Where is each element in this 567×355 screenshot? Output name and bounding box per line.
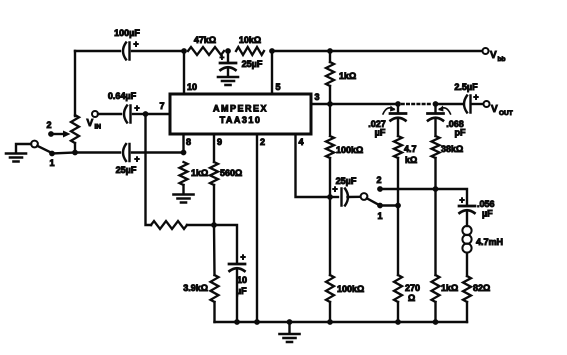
ground: below top 25uF cap xyxy=(218,77,238,85)
capacitor 0.64&#181;F input coupling xyxy=(108,91,140,123)
wire: top rail from 100uF to pin-10 node xyxy=(132,50,184,52)
resistor 10k&#937; in top rail xyxy=(236,35,264,55)
svg-text:4.7: 4.7 xyxy=(404,144,417,154)
wire: feedback node down to 3.9k xyxy=(213,225,216,275)
resistor 100k&#937; lower to ground rail xyxy=(326,275,364,302)
resistor 3.9k&#937; feedback to ground rail xyxy=(183,275,218,302)
svg-text:5: 5 xyxy=(275,82,280,92)
wire: pin-4 node down to lower 100k xyxy=(329,197,331,275)
svg-text:V: V xyxy=(87,118,94,129)
wire: position-2 across 38k line to .056 branch xyxy=(380,189,467,205)
svg-text:Ω: Ω xyxy=(408,293,415,303)
resistor 100k&#937; upper from output node to pin-4 node xyxy=(326,104,363,158)
terminal VIN input xyxy=(87,111,102,131)
svg-text:3.9kΩ: 3.9kΩ xyxy=(183,283,208,293)
svg-text:+: + xyxy=(220,53,225,62)
pin 2 lead from IC straight down to ground rail xyxy=(257,134,265,322)
switch S2 (tone) with arm to position 1 xyxy=(361,193,383,221)
svg-text:25µF: 25µF xyxy=(242,59,263,69)
wire: 25uF top cap to its ground xyxy=(227,69,229,76)
svg-text:10kΩ: 10kΩ xyxy=(239,35,261,45)
node: pin-7 input junction xyxy=(143,111,149,117)
ground: below pin-8 1k resistor xyxy=(174,195,194,203)
node: rail junction at lower 1k xyxy=(433,319,439,325)
svg-text:TAA310: TAA310 xyxy=(220,115,262,125)
svg-text:560Ω: 560Ω xyxy=(220,168,242,178)
pin 9 lead from IC down to 560 ohm xyxy=(214,134,222,162)
svg-text:3: 3 xyxy=(314,92,319,102)
node: switch position-1 junction on 4.7k line xyxy=(395,203,401,209)
svg-text:8: 8 xyxy=(186,137,191,147)
wire: 1k pin8 resistor to ground xyxy=(182,185,184,194)
potentiometer (volume control) with wiper arrow xyxy=(46,115,79,143)
pin 4 lead from IC down then right to 100k line xyxy=(296,134,331,197)
capacitor .056&#181;F series branch xyxy=(459,195,495,219)
ground: main ground below rail xyxy=(280,334,300,342)
node: switch position-2 junction on 38k line xyxy=(433,186,439,192)
svg-text:1: 1 xyxy=(49,158,54,168)
inductor 4.7mH xyxy=(462,226,503,253)
svg-text:2: 2 xyxy=(376,175,381,185)
svg-text:10: 10 xyxy=(187,82,197,92)
wire: 560 ohm down to feedback node xyxy=(213,185,215,225)
wire: 82 ohm to ground rail end xyxy=(466,302,468,322)
resistor 1k&#937; to ground rail (lower) xyxy=(432,275,459,302)
pin 8 lead from IC down to pin-8 node xyxy=(184,134,192,153)
ground: at input switch xyxy=(6,154,26,162)
capacitor 25&#181;F input coupling (bottom-left) xyxy=(116,144,140,175)
wire: lower 1k to ground rail xyxy=(434,302,436,322)
wire: 2.5uF to VOUT terminal xyxy=(472,103,483,105)
wire: 10uF cap to ground rail xyxy=(236,270,238,322)
svg-text:+: + xyxy=(133,39,138,49)
wire: 38k down across switch row to 1k xyxy=(434,158,436,275)
svg-text:µF: µF xyxy=(375,128,386,138)
svg-text:.056: .056 xyxy=(477,199,495,209)
wire: 100k upper to pin-4 node xyxy=(329,158,331,197)
wire: lower 100k to ground rail xyxy=(329,302,331,322)
wire: bottom ground rail xyxy=(215,321,468,323)
wire: left vertical line from top rail corner down to volume pot xyxy=(74,51,76,116)
svg-text:25µF: 25µF xyxy=(336,176,357,186)
wire: .068 node to 2.5uF output cap xyxy=(436,103,464,105)
wire: pot bottom stem to input node xyxy=(74,143,76,153)
svg-text:1kΩ: 1kΩ xyxy=(191,168,208,178)
wire: pin-7 node to IC pin 7 xyxy=(146,101,171,114)
resistor 270&#937; to ground rail xyxy=(394,275,420,303)
wire: inductor to 82 ohm xyxy=(466,253,468,276)
svg-text:2: 2 xyxy=(46,120,51,130)
svg-text:2.5µF: 2.5µF xyxy=(454,82,478,92)
capacitor 2.5&#181;F output coupling xyxy=(454,82,478,113)
node: rail junction at 270 ohm xyxy=(395,319,401,325)
pin 10 lead from top rail into IC xyxy=(184,51,197,94)
wire: 4.7k down across switch row to 270 ohm xyxy=(397,158,399,275)
wire: input node to 25uF coupling cap xyxy=(75,151,120,153)
svg-text:270: 270 xyxy=(405,283,420,293)
node: 1k feed node on top rail xyxy=(327,48,333,54)
wire: top rail from 1k node to Vbb terminal xyxy=(330,50,482,52)
node: pin-3 output junction xyxy=(327,101,333,107)
capacitor 100&#181;F coupling cap in top rail xyxy=(114,28,140,60)
wire: .056 cap to inductor xyxy=(466,212,468,226)
svg-text:0.64µF: 0.64µF xyxy=(108,91,137,101)
wire: 0.64uF to pin-7 node xyxy=(133,113,146,115)
wire: feedback resistor to feedback node xyxy=(187,224,214,226)
terminal VOUT output xyxy=(484,101,513,117)
capacitor 10&#181;F feedback bypass xyxy=(229,252,247,296)
svg-text:7: 7 xyxy=(159,101,164,111)
wire: VIN terminal to 0.64uF xyxy=(98,113,121,115)
wire: .027 cap to 4.7k xyxy=(397,120,399,137)
svg-text:38kΩ: 38kΩ xyxy=(441,144,463,154)
resistor 38k&#937; xyxy=(432,136,464,158)
node: feedback junction xyxy=(211,222,217,228)
svg-text:1kΩ: 1kΩ xyxy=(339,71,356,81)
svg-text:82Ω: 82Ω xyxy=(473,283,490,293)
svg-text:+: + xyxy=(473,92,478,102)
resistor 1k&#937; at pin 8 to ground xyxy=(180,162,209,185)
node: rail junction at 100k xyxy=(327,319,333,325)
node: rail junction at 10uF xyxy=(234,319,240,325)
svg-text:+: + xyxy=(134,103,139,113)
node: .068 cap top junction xyxy=(433,101,439,107)
svg-text:1kΩ: 1kΩ xyxy=(441,283,458,293)
op-amp U1 Amperex TAA310 IC body xyxy=(170,94,311,134)
wire: feedback line from pin-7 node down to feedback resistor xyxy=(146,114,152,225)
svg-text:+: + xyxy=(459,195,464,205)
node: .027 cap top junction xyxy=(395,101,401,107)
resistor 4.7k&#937; xyxy=(394,136,417,165)
wire: 25uF cap to tone switch pole xyxy=(348,196,361,199)
node: pin-4 junction on 100k line xyxy=(327,194,333,200)
svg-text:kΩ: kΩ xyxy=(405,155,417,165)
svg-text:4: 4 xyxy=(298,137,303,147)
svg-text:pF: pF xyxy=(455,128,466,138)
svg-text:100µF: 100µF xyxy=(114,28,140,38)
svg-text:47kΩ: 47kΩ xyxy=(194,35,216,45)
wire: top rail to 1k and 1k to output node xyxy=(329,51,331,104)
svg-text:bb: bb xyxy=(498,56,506,63)
svg-text:V: V xyxy=(490,50,497,61)
wire: 3.9k to ground rail corner xyxy=(213,302,215,322)
wire: pin-4 node to 25uF switch cap xyxy=(330,196,338,198)
node: pin-5 supply node junction xyxy=(269,48,275,54)
pin 5 lead from top rail into IC xyxy=(272,51,281,94)
node: rail junction at pin 2 xyxy=(254,319,260,325)
svg-text:100kΩ: 100kΩ xyxy=(336,145,363,155)
capacitor 25&#181;F tone switch coupling xyxy=(332,176,356,206)
wire: top rail from pin-5 node to 1k node xyxy=(272,50,330,52)
wire: .068 cap to 38k xyxy=(434,120,436,137)
svg-text:10: 10 xyxy=(237,275,247,285)
wire: dotted link between .027 and .068 nodes xyxy=(402,103,432,105)
svg-text:+: + xyxy=(240,252,245,262)
svg-text:AMPEREX: AMPEREX xyxy=(213,104,268,114)
resistor 82&#937; to ground rail xyxy=(463,276,490,302)
node: input/pot-bottom junction xyxy=(72,150,78,156)
svg-text:25µF: 25µF xyxy=(116,165,137,175)
svg-text:9: 9 xyxy=(217,137,222,147)
capacitor 25&#181;F decoupling to ground (top) xyxy=(220,51,263,70)
wire: 270 ohm to ground rail xyxy=(397,302,399,322)
svg-text:V: V xyxy=(491,104,498,115)
switch S1 (muting) with arm to position 1 xyxy=(31,141,55,168)
svg-text:2: 2 xyxy=(260,137,265,147)
svg-text:OUT: OUT xyxy=(499,110,513,117)
resistor 1k&#937; from top rail to pin-3 output node xyxy=(326,62,356,86)
node: 25uF decoupling node between 47k and 10k xyxy=(225,48,231,54)
wire: ground rail stem to main ground xyxy=(288,322,290,333)
wire: top rail left segment from corner to 100uF xyxy=(75,50,120,52)
resistor feedback (horizontal, unlabeled) from pin-7 line to feedback node xyxy=(151,221,187,229)
wire: 25uF cap to IC pin 8 node xyxy=(132,151,184,153)
resistor 47k&#937; in top rail xyxy=(188,35,224,55)
capacitor .027&#181;F tone network with polarity curl xyxy=(368,104,406,138)
wire: switch position-1 dot to 4.7k line xyxy=(380,204,398,206)
pin 3 lead from IC to output node xyxy=(311,92,330,104)
terminal Vbb supply xyxy=(483,48,506,63)
wire: feedback node right then down to 10uF cap xyxy=(214,225,237,263)
svg-text:4.7mH: 4.7mH xyxy=(476,237,503,247)
svg-text:+: + xyxy=(134,154,139,164)
wire: switch position-1 to input node xyxy=(52,153,75,154)
svg-text:µF: µF xyxy=(482,209,493,219)
wire: switch pole to ground corner xyxy=(16,144,31,153)
node: pin-10 supply node junction xyxy=(181,48,187,54)
svg-text:IN: IN xyxy=(95,124,102,131)
svg-text:100kΩ: 100kΩ xyxy=(337,284,364,294)
resistor 560&#937; at pin 9 xyxy=(210,162,242,185)
svg-text:1: 1 xyxy=(377,211,382,221)
wire: output node to .027 cap node xyxy=(330,103,398,105)
node: switch position-2 terminal xyxy=(376,175,382,192)
node: rail junction at ground stem xyxy=(287,319,293,325)
capacitor .068pF tone network with polarity curl xyxy=(428,104,466,138)
node: pin-8 junction xyxy=(181,150,187,156)
